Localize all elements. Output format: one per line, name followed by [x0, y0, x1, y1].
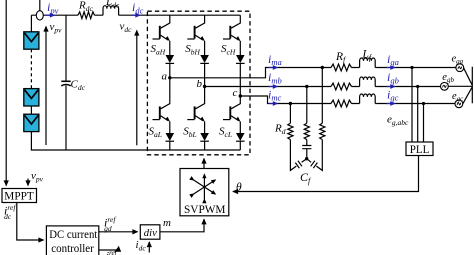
wire MPPT output to DC current controller — [17, 203, 44, 241]
svg-text:iref: iref — [106, 249, 118, 255]
junction PLL tap phase b — [416, 85, 419, 142]
capacitor Cf middle vertical — [302, 140, 311, 159]
resistor Rf phase b — [331, 83, 352, 90]
svg-text:PLL: PLL — [410, 144, 430, 156]
wire PV string drop — [30, 15, 32, 32]
PV module 3 — [24, 114, 39, 131]
node c — [233, 87, 243, 99]
svg-text:SVPWM: SVPWM — [184, 202, 226, 216]
wire Rf to Lf — [352, 68, 377, 104]
SVPWM block — [180, 169, 229, 217]
PV module 2 — [24, 89, 39, 106]
wire PLL theta output to SVPWM — [233, 156, 419, 192]
wire controller output to div — [99, 231, 138, 233]
current label i_pv — [46, 0, 59, 15]
junction PLL tap phase a — [410, 66, 413, 142]
transistor S_aH with series diode (leg a high side) — [151, 15, 175, 78]
svg-text:DC current: DC current — [49, 227, 98, 241]
wire controller second output — [99, 247, 119, 255]
label i_gd_ref — [104, 215, 116, 233]
current label i_ma — [268, 52, 282, 68]
sensor circle on PV terminal — [36, 11, 43, 20]
resistor Rf phase a — [331, 51, 352, 71]
current label i_mb — [268, 70, 282, 86]
svg-text:c: c — [233, 87, 238, 99]
junction PLL tap phase c — [422, 102, 425, 142]
wire phase c to grid — [376, 103, 455, 105]
wire SVPWM gating output to converter — [203, 159, 205, 169]
current label i_mc — [268, 87, 281, 103]
current label i_gc — [387, 87, 399, 103]
resistor Rf phase c — [331, 100, 352, 107]
wire phase b output — [205, 86, 331, 88]
voltage arrow v_dc — [120, 21, 137, 146]
wire phase a output — [170, 68, 331, 78]
wire between PV modules — [30, 106, 32, 114]
transistor S_aL with series diode (leg a low side) — [149, 78, 175, 150]
inductor Lf phase b — [360, 77, 376, 87]
svg-text:a: a — [162, 71, 168, 83]
PV module 1 — [24, 32, 39, 49]
wire grid neutral connections — [448, 67, 472, 104]
svg-text:b: b — [197, 78, 203, 90]
resistor Rd phase b branch — [304, 87, 309, 140]
label i_dc_ref — [4, 203, 16, 221]
DC current controller block — [46, 226, 98, 255]
junction phase a filter tap — [321, 66, 324, 69]
wire top DC rail — [31, 14, 240, 16]
resistor Rd phase c branch with label — [274, 104, 293, 140]
SVPWM space vector star — [194, 175, 216, 200]
divider block div — [140, 225, 160, 239]
label Cf — [300, 170, 312, 186]
current input i_dc to div — [136, 239, 150, 253]
inductor Lf phase a — [360, 49, 376, 68]
current label i_gb — [387, 70, 399, 86]
wire dashed PV string continuation — [30, 49, 32, 88]
svg-text:m: m — [163, 217, 171, 229]
wire PV positive stub from top edge — [39, 0, 41, 11]
current label i_ga — [387, 52, 399, 68]
label e_g,abc — [387, 114, 409, 128]
node b — [197, 78, 207, 90]
current label i_dc — [132, 0, 144, 15]
wire PV negative return (bottom rail) — [31, 132, 240, 150]
capacitor Cf right slanted — [307, 140, 323, 171]
dashed converter enclosure — [147, 11, 250, 155]
PLL block — [406, 142, 433, 156]
resistor Rdc — [78, 0, 95, 19]
inductor Lf phase c — [360, 94, 376, 104]
transistor S_cL with series diode (leg c low side) — [219, 96, 245, 150]
wire phase a to grid — [376, 67, 456, 69]
svg-text:MPPT: MPPT — [4, 189, 34, 203]
source e_ga — [452, 54, 464, 72]
inductor Ldc — [103, 0, 120, 15]
capacitor Cf left slanted — [290, 140, 306, 171]
wire div output to SVPWM — [160, 219, 204, 232]
svg-text:controller: controller — [51, 241, 94, 255]
source e_gc — [452, 91, 464, 108]
svg-text:div: div — [144, 227, 157, 239]
wire phase c output — [240, 96, 331, 104]
resistor Rd phase a branch — [320, 68, 325, 140]
junction phase c filter tap — [289, 102, 292, 105]
transistor S_cH with series diode (leg c high side) — [221, 15, 245, 96]
source e_gb — [441, 72, 455, 90]
voltage input v_pv to MPPT — [28, 170, 44, 186]
wire left sense rail to MPPT — [5, 0, 7, 186]
wire phase b to grid — [376, 86, 440, 88]
node a — [162, 71, 172, 83]
label m — [163, 217, 171, 229]
label theta — [236, 182, 242, 194]
MPPT block — [2, 189, 37, 203]
capacitor Cdc — [61, 15, 85, 150]
junction Cf star point — [305, 157, 308, 160]
transistor S_bH with series diode (leg b high side) — [185, 15, 209, 86]
voltage arrow v_pv — [46, 21, 62, 145]
svg-text:θ: θ — [236, 182, 242, 194]
transistor S_bL with series diode (leg b low side) — [183, 86, 209, 150]
junction phase b filter tap — [305, 85, 308, 88]
